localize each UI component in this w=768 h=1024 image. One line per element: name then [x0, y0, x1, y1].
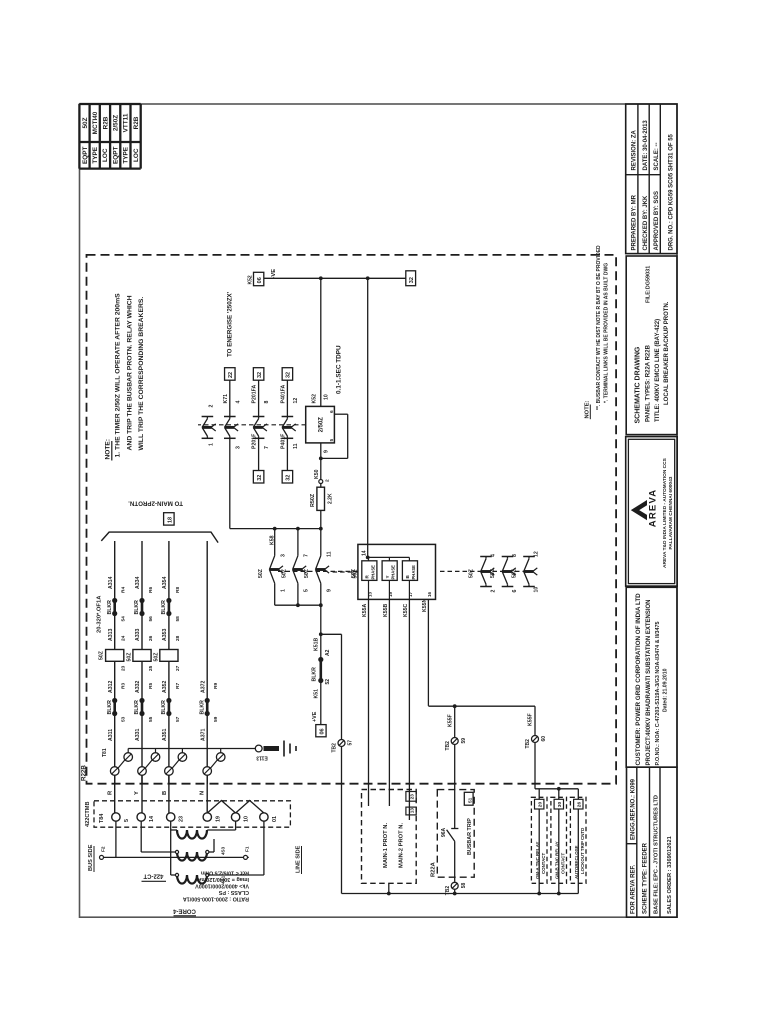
svg-text:R: R: [365, 575, 370, 579]
svg-text:K55N: K55N: [422, 598, 428, 612]
svg-text:EQPT: EQPT: [82, 147, 89, 164]
svg-text:CUSTOMER: POWER GRID CORPORAT: CUSTOMER: POWER GRID CORPORATION OF INDI…: [635, 593, 642, 766]
svg-text:PHASE: PHASE: [370, 565, 375, 580]
svg-text:50Z: 50Z: [99, 650, 105, 660]
svg-text:23: 23: [410, 794, 416, 800]
svg-text:50Z: 50Z: [490, 568, 496, 578]
svg-text:20-320*.OF1A: 20-320*.OF1A: [97, 595, 103, 633]
svg-text:53: 53: [121, 716, 127, 722]
svg-text:8: 8: [512, 554, 518, 557]
svg-text:AREVA T&D INDIA LIMITED -: AREVA T&D INDIA LIMITED - AUTOMATION CCS: [662, 457, 668, 568]
svg-text:BLKR: BLKR: [312, 667, 318, 682]
svg-text:9: 9: [324, 450, 330, 453]
svg-text:LOCKOUT TRIP CNTD: LOCKOUT TRIP CNTD: [580, 828, 585, 874]
svg-text:DRG. NO.: CPD KG59 SC05 SHT31: DRG. NO.: CPD KG59 SC05 SHT31 OF 55: [669, 133, 675, 250]
svg-text:8: 8: [264, 401, 270, 404]
svg-text:TB2: TB2: [332, 743, 338, 753]
svg-text:K71: K71: [223, 394, 229, 404]
svg-text:P401F: P401F: [280, 434, 286, 449]
svg-text:SCHEMATIC DRAWING: SCHEMATIC DRAWING: [635, 346, 642, 423]
svg-text:LOCAL BREAKER BACKUP PROTN.: LOCAL BREAKER BACKUP PROTN.: [664, 301, 670, 405]
svg-text:A331: A331: [135, 728, 141, 741]
svg-text:+VE: +VE: [312, 711, 318, 722]
svg-text:28: 28: [175, 635, 181, 641]
svg-text:P401FA: P401FA: [280, 385, 286, 404]
svg-text:CONTACT: CONTACT: [560, 853, 565, 874]
svg-text:A352: A352: [162, 680, 168, 693]
svg-text:3: 3: [281, 554, 287, 557]
svg-text:P.O.NO.: NOA: C-47203-S119A-3: P.O.NO.: NOA: C-47203-S119A-3/G3 NOA-I/3…: [655, 621, 661, 765]
svg-text:MAIN-2 PROT N.: MAIN-2 PROT N.: [399, 823, 405, 868]
svg-text:N: N: [200, 791, 206, 795]
svg-text:FOR AREVA REF.: FOR AREVA REF.: [631, 865, 637, 914]
svg-text:50Z: 50Z: [258, 568, 264, 578]
svg-text:-VE: -VE: [271, 269, 277, 279]
svg-text:01: 01: [272, 816, 278, 822]
svg-text:59: 59: [461, 738, 467, 744]
svg-text:A371: A371: [200, 728, 206, 741]
svg-text:9: 9: [327, 589, 333, 592]
svg-text:K58: K58: [270, 535, 276, 545]
svg-text:422CTMB: 422CTMB: [85, 802, 91, 828]
svg-text:WILL TRIP THE CORRESPONDING BR: WILL TRIP THE CORRESPONDING BREAKERS.: [138, 297, 145, 451]
svg-text:4: 4: [491, 554, 497, 557]
svg-text:5: 5: [329, 439, 335, 442]
svg-text:R6: R6: [148, 587, 154, 593]
svg-text:K51: K51: [314, 689, 320, 699]
svg-text:06: 06: [257, 277, 263, 283]
svg-text:R: R: [108, 790, 114, 795]
svg-text:11: 11: [293, 443, 299, 449]
svg-text:26: 26: [148, 635, 154, 641]
svg-text:TITLE: 400KV EMCO LINE (BAY-: TITLE: 400KV EMCO LINE (BAY-422): [655, 319, 661, 422]
svg-text:P201F: P201F: [252, 434, 258, 449]
svg-text:58: 58: [175, 616, 181, 622]
svg-text:51: 51: [467, 797, 473, 803]
svg-text:Imag = 30/40/120mA: Imag = 30/40/120mA: [198, 876, 249, 882]
svg-text:Y: Y: [134, 791, 140, 795]
svg-text:50Z: 50Z: [127, 652, 133, 662]
svg-text:10: 10: [534, 587, 540, 593]
svg-text:27: 27: [175, 665, 181, 671]
svg-text:GM-B TNC RELAY: GM-B TNC RELAY: [554, 841, 559, 879]
svg-text:3: 3: [235, 446, 241, 449]
svg-text:A2: A2: [325, 649, 331, 656]
svg-text:NOTE:: NOTE:: [105, 439, 112, 460]
svg-text:7: 7: [304, 554, 310, 557]
svg-text:K55F: K55F: [528, 713, 534, 726]
svg-text:A332: A332: [135, 680, 141, 693]
svg-text:50Z: 50Z: [304, 568, 310, 578]
svg-text:1: 1: [281, 589, 287, 592]
svg-text:10: 10: [324, 394, 330, 400]
svg-text:12: 12: [534, 551, 540, 557]
svg-text:A312: A312: [108, 680, 114, 693]
svg-text:5: 5: [124, 819, 130, 822]
svg-text:BUS SIDE: BUS SIDE: [88, 844, 94, 871]
svg-text:1: 1: [209, 443, 215, 446]
svg-text:BLKR: BLKR: [107, 600, 113, 615]
svg-text:52: 52: [325, 679, 331, 685]
svg-text:PHASE: PHASE: [391, 565, 396, 580]
svg-text:19: 19: [215, 816, 221, 822]
svg-text:LINE SIDE: LINE SIDE: [296, 845, 302, 873]
svg-text:PREPARED BY: MR: PREPARED BY: MR: [632, 194, 638, 250]
svg-text:422-CT: 422-CT: [143, 873, 163, 879]
svg-text:2/50Z: 2/50Z: [318, 417, 324, 433]
svg-text:20: 20: [538, 802, 544, 808]
svg-text:K52: K52: [312, 394, 318, 404]
svg-text:NOTE:: NOTE:: [585, 400, 591, 418]
svg-text:2/50Z: 2/50Z: [113, 115, 120, 131]
svg-text:**. BUSBAR CONTACT WT HE DIST: **. BUSBAR CONTACT WT HE DIST NOTE R BAY…: [596, 245, 602, 410]
svg-text:23: 23: [179, 816, 185, 822]
svg-text:32: 32: [257, 372, 263, 378]
svg-text:PHASE: PHASE: [411, 565, 416, 580]
svg-text:55: 55: [148, 716, 154, 722]
svg-text:SCHEME TYPE: FEEDER: SCHEME TYPE: FEEDER: [643, 842, 649, 914]
svg-text:96A: 96A: [441, 827, 447, 837]
svg-text:K55A: K55A: [362, 603, 368, 617]
svg-text:FILE:DG59031: FILE:DG59031: [646, 266, 652, 303]
svg-text:16: 16: [427, 591, 432, 597]
svg-text:18: 18: [168, 517, 174, 523]
svg-text:57: 57: [175, 716, 181, 722]
svg-text:P201FA: P201FA: [252, 385, 258, 404]
svg-text:TYPE: TYPE: [92, 146, 99, 163]
svg-text:A351: A351: [162, 728, 168, 741]
svg-text:BLKR: BLKR: [199, 700, 205, 715]
svg-text:R50Z: R50Z: [310, 493, 316, 507]
svg-text:60: 60: [541, 736, 547, 742]
svg-text:PROJECT:400KV BHADRAWATI SUBST: PROJECT:400KV BHADRAWATI SUBSTATION EXTE…: [646, 599, 652, 765]
svg-text:06: 06: [320, 728, 326, 734]
svg-text:TB2: TB2: [445, 741, 451, 751]
svg-text:23: 23: [121, 665, 127, 671]
svg-text:BLKR: BLKR: [134, 600, 140, 615]
svg-text:K55B: K55B: [383, 603, 389, 617]
svg-text:A314: A314: [108, 576, 114, 589]
svg-text:BASE FILE: EPC - JYOTI STRUCTU: BASE FILE: EPC - JYOTI STRUCTURES LTD: [654, 795, 660, 914]
svg-text:LOC: LOC: [102, 148, 109, 162]
svg-text:A334: A334: [135, 576, 141, 589]
svg-text:APPROVED BY: SGS: APPROVED BY: SGS: [654, 191, 660, 251]
svg-text:14: 14: [362, 550, 368, 556]
svg-text:K52: K52: [248, 275, 254, 284]
svg-text:Rct < 10/5/2.5 Ohm: Rct < 10/5/2.5 Ohm: [201, 870, 249, 876]
svg-text:E113: E113: [256, 755, 268, 761]
svg-text:R3: R3: [121, 683, 127, 689]
svg-text:T84: T84: [99, 814, 105, 823]
svg-text:F2: F2: [101, 846, 107, 852]
svg-text:B: B: [405, 575, 410, 579]
svg-text:11: 11: [327, 551, 333, 557]
svg-text:K51B: K51B: [314, 637, 320, 651]
svg-text:A354: A354: [162, 576, 168, 589]
svg-text:BUSBAR TRIP: BUSBAR TRIP: [467, 818, 473, 855]
svg-text:GM-A TNC RELAY: GM-A TNC RELAY: [535, 841, 540, 879]
svg-text:50Z: 50Z: [469, 568, 475, 578]
svg-text:6: 6: [512, 590, 518, 593]
svg-text:R7: R7: [175, 683, 181, 689]
svg-text:T81: T81: [102, 748, 108, 757]
svg-text:REVISION: ZA: REVISION: ZA: [632, 129, 638, 170]
svg-text:SCALE: --: SCALE: --: [654, 143, 660, 171]
svg-text:30: 30: [557, 802, 563, 808]
svg-text:R4: R4: [121, 587, 127, 593]
svg-text:MCTI40: MCTI40: [92, 111, 99, 134]
svg-text:50Z: 50Z: [82, 117, 89, 128]
svg-text:2.2K: 2.2K: [328, 493, 334, 504]
svg-text:0.1-1.SEC TDPU: 0.1-1.SEC TDPU: [336, 345, 343, 394]
svg-text:CLASS : PS: CLASS : PS: [218, 889, 249, 895]
svg-text:Vk> 4000/2000/1000V: Vk> 4000/2000/1000V: [195, 883, 249, 889]
svg-text:50Z: 50Z: [512, 568, 518, 578]
svg-text:ENGG.REF.NO.: K099: ENGG.REF.NO.: K099: [631, 778, 637, 840]
svg-text:BLKR: BLKR: [161, 600, 167, 615]
svg-text:13: 13: [367, 591, 372, 597]
svg-text:PALLAVARAM CHENNAI 600043: PALLAVARAM CHENNAI 600043: [668, 476, 674, 549]
svg-text:10: 10: [244, 816, 250, 822]
svg-text:54: 54: [121, 616, 127, 622]
svg-text:A333: A333: [135, 628, 141, 641]
svg-text:R9: R9: [213, 683, 219, 689]
svg-text:5: 5: [304, 589, 310, 592]
svg-text:1. THE TIMER 2/50Z WILL OPERAT: 1. THE TIMER 2/50Z WILL OPERATE AFTER 20…: [115, 293, 122, 458]
svg-text:K55F: K55F: [448, 714, 454, 727]
svg-text:R5: R5: [148, 683, 154, 689]
svg-text:TO ENERGISE '250ZX': TO ENERGISE '250ZX': [227, 291, 234, 357]
svg-text:25: 25: [148, 665, 154, 671]
svg-text:57: 57: [348, 740, 354, 746]
svg-text:7: 7: [264, 446, 270, 449]
svg-text:B: B: [162, 791, 168, 795]
svg-text:19: 19: [388, 591, 393, 597]
svg-text:22: 22: [228, 372, 234, 378]
svg-text:TB2: TB2: [525, 739, 531, 749]
svg-text:BLKR: BLKR: [107, 700, 113, 715]
svg-text:4S3: 4S3: [221, 846, 226, 855]
svg-text:EQPT: EQPT: [113, 147, 120, 164]
svg-text:K55C: K55C: [403, 603, 409, 617]
svg-text:PANEL TYPES: R22A R22B: PANEL TYPES: R22A R22B: [646, 344, 652, 422]
svg-text:12: 12: [293, 398, 299, 404]
svg-text:AND TRIP THE BUSBAR PROTN. REL: AND TRIP THE BUSBAR PROTN. RELAY WHICH: [127, 295, 134, 450]
svg-text:AREVA: AREVA: [648, 489, 659, 528]
svg-text:K50: K50: [314, 469, 320, 479]
svg-text:A372: A372: [200, 680, 206, 693]
svg-text:MAIN-1 PROT N.: MAIN-1 PROT N.: [383, 823, 389, 868]
svg-text:17: 17: [408, 591, 413, 597]
svg-text:2: 2: [325, 479, 331, 482]
svg-text:A311: A311: [108, 729, 114, 741]
svg-text:A313: A313: [108, 628, 114, 641]
svg-text:6: 6: [329, 410, 335, 413]
svg-text:50Z: 50Z: [154, 652, 160, 662]
svg-text:R2B: R2B: [102, 116, 109, 129]
svg-text:R22A: R22A: [430, 861, 436, 877]
svg-text:50Z: 50Z: [281, 568, 287, 578]
svg-text:RATIO : 2000-1000-500/1A: RATIO : 2000-1000-500/1A: [183, 895, 249, 901]
svg-text:4: 4: [235, 401, 241, 404]
svg-text:CONTACT: CONTACT: [541, 853, 546, 874]
svg-text:24: 24: [121, 635, 127, 641]
svg-text:50Z: 50Z: [351, 568, 357, 578]
svg-text:32: 32: [257, 475, 263, 481]
svg-text:BLKR: BLKR: [161, 700, 167, 715]
svg-text:R8: R8: [175, 587, 181, 593]
svg-text:*. TERMINAL LINKS WILL BE PROV: *. TERMINAL LINKS WILL BE PROVIDED IN AS…: [604, 263, 610, 403]
svg-text:2: 2: [491, 590, 497, 593]
svg-text:F1: F1: [245, 846, 251, 852]
svg-text:14: 14: [149, 816, 155, 822]
svg-text:AUTORECLOSE: AUTORECLOSE: [574, 845, 579, 879]
svg-text:VTT11: VTT11: [123, 113, 130, 132]
svg-text:TO MAIN-2PROTN.: TO MAIN-2PROTN.: [128, 500, 183, 507]
svg-text:2: 2: [209, 405, 215, 408]
svg-text:DATE: 30-04-2013: DATE: 30-04-2013: [643, 120, 649, 171]
svg-text:R22B: R22B: [81, 765, 88, 781]
svg-text:A353: A353: [162, 628, 168, 641]
svg-text:56: 56: [148, 616, 154, 622]
svg-text:32: 32: [286, 475, 292, 481]
svg-text:TYPE: TYPE: [123, 146, 130, 163]
svg-text:Y: Y: [385, 575, 390, 578]
svg-text:BLKR: BLKR: [134, 700, 140, 715]
svg-text:32: 32: [286, 372, 292, 378]
svg-text:SALES ORDER : 3369012621: SALES ORDER : 3369012621: [667, 836, 673, 914]
svg-text:CORE-4: CORE-4: [173, 908, 196, 914]
svg-text:26: 26: [577, 802, 583, 808]
svg-text:R2B: R2B: [133, 116, 140, 129]
svg-text:58: 58: [461, 883, 467, 889]
svg-text:CHECKED BY: JKK: CHECKED BY: JKK: [643, 195, 649, 251]
svg-text:59: 59: [213, 716, 219, 722]
svg-text:13: 13: [410, 808, 416, 814]
svg-text:32: 32: [409, 277, 415, 283]
svg-text:LOC: LOC: [133, 148, 140, 162]
svg-text:Dated: 21.09.2010: Dated: 21.09.2010: [663, 668, 669, 712]
